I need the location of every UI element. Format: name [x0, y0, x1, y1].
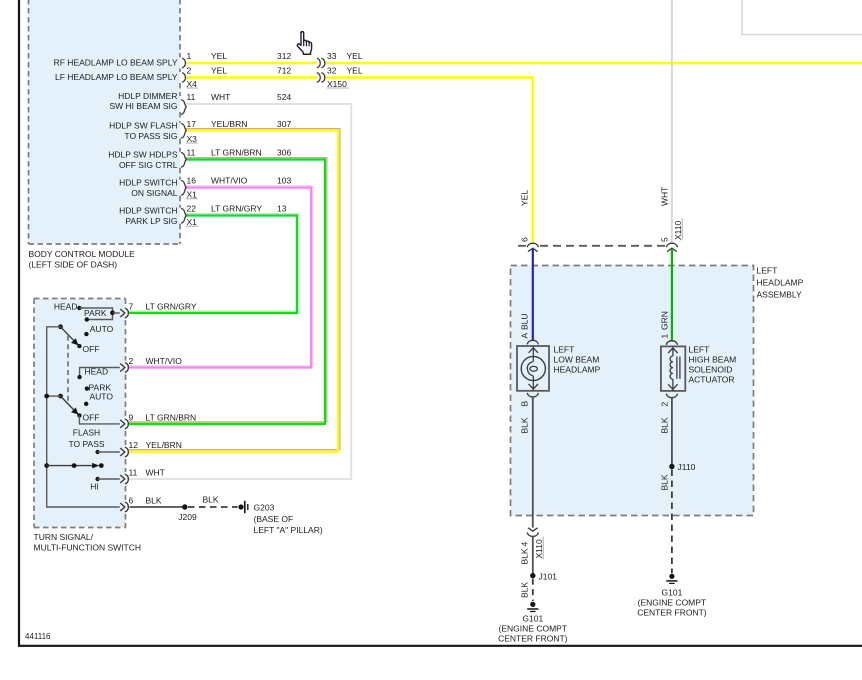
svg-text:YEL: YEL	[347, 51, 363, 61]
svg-text:WHT: WHT	[146, 468, 165, 478]
svg-text:YEL: YEL	[347, 66, 363, 76]
svg-text:HEADLAMP: HEADLAMP	[757, 278, 804, 288]
rotated label BLK below lamp	[520, 417, 530, 433]
BCM pin label HDLP SW HDLPS OFF SIG CTRL	[108, 150, 178, 170]
svg-text:PARK: PARK	[84, 308, 107, 318]
svg-text:FLASH: FLASH	[73, 428, 100, 438]
switch bus from lever1 to pin 6	[47, 327, 120, 507]
svg-text:BLK: BLK	[146, 496, 162, 506]
svg-text:2: 2	[129, 356, 134, 366]
switch pin 7 label LT GRN/GRY	[129, 302, 197, 312]
svg-text:ON SIGNAL: ON SIGNAL	[131, 188, 178, 198]
BCM connector label X3	[186, 134, 198, 144]
high beam solenoid actuator L1	[661, 341, 685, 398]
wire WHT from top of page to headlamp connector	[671, 0, 673, 244]
svg-text:(ENGINE COMPT: (ENGINE COMPT	[638, 598, 706, 608]
svg-text:11: 11	[187, 148, 196, 158]
svg-text:(LEFT SIDE OF DASH): (LEFT SIDE OF DASH)	[29, 260, 118, 270]
rotated label 1 GRN	[660, 311, 670, 338]
headlamp switch deck2 PARK contact	[85, 383, 112, 393]
svg-text:16: 16	[187, 176, 197, 186]
wire YEL circuit 712 horizontal and down to headlamp	[186, 78, 533, 244]
svg-text:LOW BEAM: LOW BEAM	[554, 355, 600, 365]
svg-text:YEL: YEL	[520, 190, 530, 206]
svg-text:LT GRN/GRY: LT GRN/GRY	[211, 204, 262, 214]
svg-text:G101: G101	[522, 614, 543, 624]
wire WHT/VIO circuit 103 BCM pin 16 to switch pin 2	[129, 188, 311, 368]
headlamp switch deck1 OFF contact	[77, 344, 99, 354]
BCM pin 2 number and wire labels YEL 712	[187, 66, 292, 76]
switch pin 2 label WHT/VIO	[129, 356, 183, 366]
svg-text:YEL/BRN: YEL/BRN	[146, 440, 182, 450]
svg-text:YEL/BRN: YEL/BRN	[211, 119, 247, 129]
svg-text:HDLP SWITCH: HDLP SWITCH	[119, 178, 177, 188]
svg-text:MULTI-FUNCTION SWITCH: MULTI-FUNCTION SWITCH	[34, 543, 142, 553]
rotated label BLK above left G101	[520, 582, 530, 598]
svg-text:HDLP SW FLASH: HDLP SW FLASH	[109, 121, 177, 131]
wire BLK from exit connector to J101	[532, 536, 534, 575]
rotated pin 6 at connector X110	[520, 237, 530, 242]
switch pin 12 label YEL/BRN	[129, 440, 182, 450]
svg-text:BLK: BLK	[520, 548, 530, 564]
turn signal multi-function switch S1 box	[34, 299, 126, 528]
svg-text:(BASE OF: (BASE OF	[254, 514, 294, 524]
left headlamp assembly caption	[757, 266, 804, 300]
headlamp switch deck2 lever	[44, 394, 78, 415]
FLASH TO PASS label	[68, 428, 104, 449]
wire LT GRN/GRY circuit 13 BCM pin 22 to switch pin 7	[129, 216, 297, 314]
svg-text:X4: X4	[187, 79, 198, 89]
BCM pin 11b number and wire labels LT GRN/BRN 306	[187, 148, 292, 158]
svg-text:J101: J101	[539, 572, 558, 582]
BCM pin bracket pin 1	[182, 58, 185, 68]
BCM connector label X1 under pin 22	[186, 217, 198, 227]
svg-text:OFF: OFF	[83, 344, 100, 354]
rotated label BLK above J101	[520, 548, 530, 564]
headlamp switch deck2 AUTO contact	[84, 392, 113, 406]
rotated connector label X110 at top	[673, 218, 683, 241]
svg-text:BLK: BLK	[520, 417, 530, 433]
wire YEL circuit 312 horizontal	[186, 62, 862, 64]
BCM pin bracket pin 11	[181, 100, 186, 115]
page border left	[18, 0, 20, 647]
partial module box top right	[742, 0, 862, 35]
wire BLK from headlamp pin B down	[532, 397, 534, 528]
svg-text:LT GRN/GRY: LT GRN/GRY	[146, 302, 197, 312]
flash to pass contact to pin 12	[95, 450, 119, 454]
svg-text:BLK: BLK	[203, 494, 219, 504]
body control module caption	[29, 249, 136, 270]
BCM pin label LF HEADLAMP LO BEAM SPLY	[55, 72, 178, 82]
svg-text:B: B	[520, 401, 530, 407]
headlamp switch deck1 AUTO contact	[84, 324, 113, 337]
low beam headlamp caption	[554, 345, 601, 375]
BCM pin bracket pin 2	[182, 73, 185, 83]
svg-text:LEFT "A" PILLAR): LEFT "A" PILLAR)	[254, 525, 323, 535]
connector X110 exit male arrow below box	[528, 528, 538, 531]
BCM pin 17 number and wire labels YEL/BRN 307	[187, 119, 292, 129]
connector X110 dashed link line	[518, 245, 665, 247]
wire BLK switch pin 6 to J209	[130, 506, 185, 508]
svg-text:J110: J110	[678, 462, 696, 472]
svg-text:LEFT: LEFT	[554, 345, 575, 355]
svg-text:WHT/VIO: WHT/VIO	[211, 176, 248, 186]
turn signal switch caption	[34, 532, 142, 553]
rotated label WHT on vertical feed wire	[660, 187, 670, 206]
svg-text:GRN: GRN	[660, 311, 670, 330]
rotated label A BLU	[520, 313, 530, 338]
svg-text:HIGH BEAM: HIGH BEAM	[689, 355, 737, 365]
svg-text:9: 9	[129, 412, 134, 422]
svg-text:2: 2	[660, 402, 670, 407]
svg-text:11: 11	[129, 468, 138, 478]
rotated pin label 2	[660, 402, 670, 407]
svg-text:13: 13	[277, 204, 287, 214]
svg-text:33: 33	[327, 51, 337, 61]
ground G101 right (engine compt center front)	[637, 574, 707, 618]
BCM pin label HDLP SWITCH ON SIGNAL	[119, 178, 178, 198]
headlamp switch deck1 HEAD contact	[54, 302, 82, 312]
inline connector X150 arcs on wire 312	[317, 58, 325, 68]
headlamp switch deck1 lever	[58, 324, 78, 345]
wire WHT circuit 524 BCM pin 11 to switch pin 11	[129, 104, 351, 479]
wire LT GRN/GRY circuit 13 gray stripe	[129, 214, 299, 311]
wire A BLU into low beam headlamp	[532, 249, 534, 340]
svg-text:G203: G203	[254, 503, 275, 513]
switch pin 11 label WHT	[129, 468, 165, 478]
svg-text:CENTER FRONT): CENTER FRONT)	[498, 634, 568, 644]
BCM pin label HDLP DIMMER SW HI BEAM SIG	[109, 91, 177, 111]
svg-text:2: 2	[187, 66, 192, 76]
headlamp switch deck1 PARK loop wiring	[79, 308, 119, 322]
svg-text:ASSEMBLY: ASSEMBLY	[757, 290, 803, 300]
rotated pin 5 at connector X110	[660, 237, 670, 242]
mechanical link dashed between decks	[67, 336, 69, 403]
svg-text:4: 4	[520, 542, 530, 547]
svg-text:OFF SIG CTRL: OFF SIG CTRL	[119, 160, 178, 170]
inline connector X150 arcs on wire 712	[317, 73, 325, 83]
svg-text:AUTO: AUTO	[90, 392, 114, 402]
wire YEL/BRN circuit 307 brown stripe	[129, 129, 340, 450]
svg-text:HDLP DIMMER: HDLP DIMMER	[118, 91, 177, 101]
svg-text:TO PASS: TO PASS	[68, 439, 104, 449]
svg-text:X1: X1	[187, 190, 198, 200]
deck2 OFF to pin 9 wiring	[79, 415, 119, 424]
switch pin 9 label LT GRN/BRN	[129, 412, 197, 422]
low beam headlamp bulb E1	[517, 340, 549, 397]
wire LT GRN/BRN circuit 306 BCM pin 11 to switch pin 9	[129, 160, 325, 424]
rotated pin label B	[520, 401, 530, 407]
svg-text:X1: X1	[187, 217, 198, 227]
svg-text:6: 6	[129, 496, 134, 506]
svg-text:307: 307	[277, 119, 291, 129]
svg-text:32: 32	[327, 66, 337, 76]
svg-text:12: 12	[129, 440, 139, 450]
svg-text:LT GRN/BRN: LT GRN/BRN	[146, 412, 197, 422]
svg-text:524: 524	[277, 92, 291, 102]
BCM pin 22 number and wire labels LT GRN/GRY 13	[187, 204, 287, 214]
svg-text:HDLP SW HDLPS: HDLP SW HDLPS	[108, 150, 178, 160]
dimmer lever with arrow	[44, 463, 103, 468]
svg-text:HI: HI	[90, 482, 99, 492]
wire 1 GRN into high beam solenoid	[671, 249, 673, 341]
svg-text:BLK: BLK	[520, 582, 530, 598]
wire WHT/VIO circuit 103 white stripe	[129, 186, 313, 366]
svg-text:WHT: WHT	[660, 187, 670, 206]
BCM pin bracket pin 22	[181, 208, 186, 223]
wire YEL/BRN circuit 307 BCM pin 17 to switch pin 12	[129, 131, 338, 452]
svg-text:LF HEADLAMP LO BEAM SPLY: LF HEADLAMP LO BEAM SPLY	[55, 72, 178, 82]
svg-text:A: A	[520, 333, 530, 339]
svg-text:SW HI BEAM SIG: SW HI BEAM SIG	[109, 101, 177, 111]
svg-text:OFF: OFF	[83, 413, 100, 423]
connector X110 exit female arc	[527, 532, 538, 536]
svg-text:YEL: YEL	[211, 51, 227, 61]
svg-text:LEFT: LEFT	[689, 345, 710, 355]
svg-text:X150: X150	[327, 79, 347, 89]
rotated label BLK on dashed ground wire	[660, 474, 670, 490]
headlamp switch deck2 HEAD contact wiring to pin 2	[77, 366, 119, 379]
svg-text:RF HEADLAMP LO BEAM SPLY: RF HEADLAMP LO BEAM SPLY	[54, 58, 178, 68]
svg-text:(ENGINE COMPT: (ENGINE COMPT	[499, 624, 567, 634]
svg-text:SOLENOID: SOLENOID	[689, 365, 733, 375]
connector X110 male arrow on GRN wire	[667, 248, 677, 251]
left headlamp assembly box	[511, 266, 754, 516]
wire LT GRN/BRN circuit 306 brown stripe	[129, 158, 327, 422]
svg-text:TO PASS SIG: TO PASS SIG	[124, 131, 177, 141]
wire BLK dashed from J110 to G101	[671, 470, 673, 574]
splice J209	[178, 504, 197, 522]
rotated pin 4 label	[520, 542, 530, 547]
svg-text:LEFT: LEFT	[757, 266, 778, 276]
svg-text:5: 5	[660, 237, 670, 242]
BCM connector label X4	[186, 79, 198, 89]
svg-text:BLU: BLU	[520, 313, 530, 330]
BCM pin label RF HEADLAMP LO BEAM SPLY	[54, 58, 178, 68]
switch pin 6 label BLK	[129, 496, 162, 506]
svg-text:BLK: BLK	[660, 474, 670, 490]
HI contact to pin 11	[90, 477, 120, 492]
svg-text:TURN SIGNAL/: TURN SIGNAL/	[34, 532, 94, 542]
svg-text:LT GRN/BRN: LT GRN/BRN	[211, 148, 262, 158]
page border bottom	[18, 645, 862, 647]
svg-text:103: 103	[277, 176, 291, 186]
svg-text:G101: G101	[662, 588, 683, 598]
drawing number 441116	[25, 632, 51, 641]
svg-text:7: 7	[129, 302, 134, 312]
svg-text:WHT: WHT	[211, 92, 230, 102]
BCM connector label X1 under pin 16	[186, 190, 198, 200]
wire BLK dashed from J101 to G101	[532, 579, 534, 601]
svg-text:ACTUATOR: ACTUATOR	[689, 375, 735, 385]
svg-text:HEADLAMP: HEADLAMP	[554, 365, 601, 375]
svg-text:HEAD: HEAD	[85, 366, 109, 376]
BCM pin bracket pin 16	[181, 180, 186, 195]
mouse cursor hand pointer	[297, 32, 311, 55]
svg-text:312: 312	[277, 51, 291, 61]
svg-text:22: 22	[187, 204, 197, 214]
BCM pin bracket pin 17	[181, 123, 186, 138]
svg-text:11: 11	[187, 92, 196, 102]
switch pin male arrows and female arcs	[120, 308, 128, 512]
svg-text:BLK: BLK	[660, 417, 670, 433]
svg-text:AUTO: AUTO	[90, 324, 114, 334]
headlamp switch deck2 OFF contact	[77, 413, 99, 423]
svg-text:712: 712	[277, 66, 291, 76]
svg-text:6: 6	[520, 237, 530, 242]
splice J110	[669, 462, 695, 472]
svg-text:1: 1	[660, 334, 670, 339]
svg-text:HDLP SWITCH: HDLP SWITCH	[119, 206, 177, 216]
BCM pin 1 number and wire labels YEL 312	[187, 51, 292, 61]
BCM pin bracket pin 11b	[181, 152, 186, 167]
connector X110 female arc on WHT wire	[666, 243, 677, 247]
svg-text:306: 306	[277, 148, 291, 158]
svg-text:1: 1	[187, 51, 192, 61]
BCM pin label HDLP SW FLASH TO PASS SIG	[109, 121, 177, 141]
splice J101	[530, 572, 557, 582]
wire BLK from solenoid pin 2 down to J110	[671, 398, 673, 467]
wire BLK dashed J209 to G203	[188, 506, 238, 508]
rotated label YEL on vertical feed wire	[520, 190, 530, 206]
svg-text:J209: J209	[178, 512, 197, 522]
BCM pin 11 number and wire labels WHT 524	[187, 92, 292, 102]
connector X110 male arrow on BLU wire	[528, 248, 538, 251]
svg-text:PARK LP SIG: PARK LP SIG	[125, 216, 177, 226]
body control module U1 box	[29, 0, 181, 244]
BCM pin 16 number and wire labels WHT/VIO 103	[187, 176, 292, 186]
svg-text:X3: X3	[187, 134, 198, 144]
svg-text:X110: X110	[534, 539, 544, 558]
svg-text:CENTER FRONT): CENTER FRONT)	[637, 608, 707, 618]
rotated label BLK below solenoid	[660, 417, 670, 433]
svg-text:YEL: YEL	[211, 66, 227, 76]
svg-text:HEAD: HEAD	[54, 302, 78, 312]
label BLK over dashed ground wire	[203, 494, 219, 504]
ground G101 left (engine compt center front)	[498, 602, 568, 644]
svg-text:WHT/VIO: WHT/VIO	[146, 356, 183, 366]
rotated connector label X110 at exit	[534, 537, 544, 560]
svg-text:441116: 441116	[25, 632, 51, 641]
high beam solenoid caption	[689, 345, 737, 385]
svg-text:X110: X110	[673, 221, 683, 240]
inline connector X150 labels 33 YEL / 32 YEL	[327, 51, 363, 89]
connector X110 female arc on YEL wire	[527, 243, 538, 247]
BCM pin label HDLP SWITCH PARK LP SIG	[119, 206, 177, 226]
svg-text:17: 17	[187, 119, 197, 129]
ground G203 (base of left A pillar)	[238, 501, 322, 535]
svg-text:BODY CONTROL MODULE: BODY CONTROL MODULE	[29, 249, 136, 259]
